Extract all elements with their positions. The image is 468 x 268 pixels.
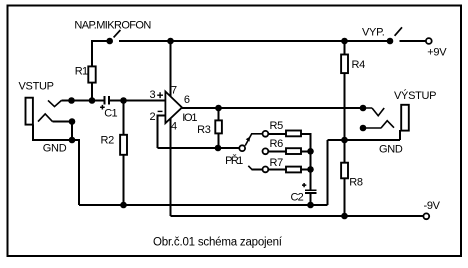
wire pin2 input <box>158 115 166 117</box>
resistor R6 <box>286 148 301 154</box>
wire R2 top stub <box>123 101 125 136</box>
label -9V <box>424 200 441 212</box>
svg-text:4: 4 <box>171 121 177 133</box>
wire virtual ground rail <box>79 204 328 206</box>
label R4 <box>352 59 366 71</box>
op-amp inverting - mark <box>158 110 163 112</box>
switch PR1 wiper arrowhead <box>246 136 251 141</box>
label pin 3 <box>150 89 156 101</box>
junction dot C1/R2 node <box>120 97 127 104</box>
label R1 <box>75 66 88 78</box>
resistor R2 <box>120 135 127 155</box>
terminal -9V <box>423 213 429 219</box>
label IO1 <box>182 112 197 124</box>
wire C2 bottom stub <box>310 193 312 205</box>
label R7 <box>270 157 284 169</box>
switch VYP. lever <box>395 27 402 36</box>
svg-text:3: 3 <box>150 89 156 101</box>
junction dot R3 top <box>215 105 222 112</box>
wire input ground run <box>32 139 79 141</box>
terminal +9V <box>426 38 432 44</box>
op-amp noninverting + mark <box>157 92 163 98</box>
junction dot C2 bottom <box>307 202 314 209</box>
svg-text:IO1: IO1 <box>182 112 197 124</box>
label pin 4 <box>171 121 177 133</box>
label GND input <box>43 142 67 154</box>
junction dot R2 bottom <box>120 202 127 209</box>
svg-text:-9V: -9V <box>424 200 441 212</box>
wire R7 right to bus <box>301 168 312 170</box>
wire R6 right to bus <box>301 150 312 152</box>
svg-text:R1: R1 <box>75 66 88 78</box>
resistor R3 <box>215 120 222 133</box>
wire pin7 supply <box>170 41 172 97</box>
label +9V <box>427 46 447 58</box>
label C1 polarity + <box>100 105 105 110</box>
label PR1 <box>225 154 243 167</box>
jack output ring spring contact <box>363 121 394 128</box>
wire ground down left <box>78 139 80 205</box>
wire feedback bottom run <box>158 147 240 149</box>
switch PR1 wiper lever <box>245 134 262 146</box>
label VYP. <box>362 27 385 39</box>
switch position contact R5 <box>263 131 269 137</box>
wire R5 left <box>268 133 286 135</box>
wire pin4 down <box>170 118 172 216</box>
switch PR1 pole contact <box>239 145 245 151</box>
svg-text:7: 7 <box>171 85 177 97</box>
resistor R8 <box>341 163 348 179</box>
svg-text:C2: C2 <box>291 191 304 203</box>
label pin 6 <box>184 94 190 106</box>
junction dot pin7 supply <box>167 38 174 45</box>
resistor R7 <box>286 167 301 173</box>
label NAP.MIKROFON <box>74 19 151 31</box>
svg-text:Obr.č.01 schéma zapojení: Obr.č.01 schéma zapojení <box>153 237 283 249</box>
wire virtual ground top run <box>328 139 401 141</box>
svg-text:2: 2 <box>150 111 156 123</box>
svg-text:R2: R2 <box>101 135 115 147</box>
svg-text:R7: R7 <box>270 157 284 169</box>
svg-text:VSTUP: VSTUP <box>19 81 54 93</box>
label C2 <box>291 191 304 203</box>
capacitor C2 plates <box>305 190 316 193</box>
junction dot output tip node <box>360 105 367 112</box>
label R5 <box>270 120 284 132</box>
label R8 <box>349 177 363 189</box>
label VYSTUP <box>394 89 436 102</box>
wire C1 to pin3 <box>110 100 166 102</box>
junction dot R3 bottom feedback node <box>215 145 222 152</box>
junction dot R7 bus <box>307 166 314 173</box>
label R3 <box>197 124 211 136</box>
svg-text:6: 6 <box>184 94 190 106</box>
wire gain bus vertical <box>310 133 312 190</box>
svg-text:NAP.MIKROFON: NAP.MIKROFON <box>74 19 151 31</box>
wire R2 bottom stub <box>123 155 125 205</box>
label C1 <box>104 108 117 120</box>
wire ring contact to ground <box>53 121 73 123</box>
op-amp IO1 triangle <box>165 92 182 124</box>
junction dot R6 bus <box>307 148 314 155</box>
svg-text:C1: C1 <box>104 108 117 120</box>
switch position contact R6 <box>263 148 269 154</box>
switch NAP.MIKROFON pole dot <box>106 38 113 45</box>
svg-text:PŘ1: PŘ1 <box>225 154 243 167</box>
label pin 7 <box>171 85 177 97</box>
resistor R5 <box>286 131 301 137</box>
wire feedback down <box>157 115 159 149</box>
wire R7 left <box>268 168 286 170</box>
wire tip contact to node <box>62 100 104 102</box>
svg-text:VÝSTUP: VÝSTUP <box>394 89 436 102</box>
svg-text:VYP.: VYP. <box>362 27 385 39</box>
junction dot R4 top <box>341 38 348 45</box>
wire R5 right to bus <box>301 133 312 135</box>
wire output jack sleeve stub <box>399 130 401 140</box>
svg-text:R6: R6 <box>270 138 284 150</box>
wire R7 contact lead <box>252 168 263 170</box>
junction dot ring node <box>69 118 76 125</box>
junction dot R1/C1 node <box>89 97 96 104</box>
wire to +9V terminal <box>400 40 426 42</box>
wire jack sleeve stub <box>32 125 34 141</box>
wire R3 top stub <box>218 108 220 121</box>
wire R3 bottom stub <box>218 133 220 148</box>
capacitor C1 plates <box>105 96 110 105</box>
wire op-amp output run <box>182 107 363 109</box>
label R2 <box>101 135 115 147</box>
switch position stub R7 <box>248 166 252 170</box>
label R6 <box>270 138 284 150</box>
junction dot R8 bottom <box>341 213 348 220</box>
junction dot tip node <box>68 97 75 104</box>
caption Obr.c.01 schema zapojeni <box>153 237 283 249</box>
svg-text:+9V: +9V <box>427 46 447 58</box>
svg-text:R5: R5 <box>270 120 284 132</box>
svg-text:R3: R3 <box>197 124 211 136</box>
wire +9V top rail left segment <box>91 40 111 42</box>
label GND output <box>379 144 403 156</box>
wire virtual ground riser <box>327 140 329 205</box>
wire -9V bottom rail <box>171 215 424 217</box>
wire R1 bottom stub <box>91 83 93 101</box>
wire R4 bottom stub <box>344 73 346 140</box>
switch VYP. pole dot <box>387 38 394 45</box>
wire R1 top stub <box>91 40 93 66</box>
label C2 polarity + <box>302 183 306 187</box>
jack ring spring contact <box>38 114 53 122</box>
switch NAP.MIKROFON lever <box>114 30 121 37</box>
resistor R4 <box>341 55 348 74</box>
jack output tip spring contact <box>363 108 384 116</box>
resistor R1 <box>88 66 95 82</box>
wire R8 top stub <box>344 140 346 163</box>
connector J1 input jack body <box>26 98 33 125</box>
switch position contact R7 <box>263 167 269 173</box>
label pin 2 <box>150 111 156 123</box>
wire R4 top stub <box>344 41 346 55</box>
junction dot output ring node <box>360 125 367 132</box>
wire ring node down <box>71 122 73 141</box>
svg-text:GND: GND <box>43 142 67 154</box>
wire R6 left <box>268 150 286 152</box>
connector J2 output jack body <box>401 105 409 131</box>
svg-text:R8: R8 <box>349 177 363 189</box>
junction dot divider node <box>341 137 348 144</box>
wire R8 bottom stub <box>344 178 346 216</box>
svg-text:R4: R4 <box>352 59 366 71</box>
svg-text:GND: GND <box>379 144 403 156</box>
wire top rail middle segment <box>119 40 390 42</box>
junction dot input GND <box>69 137 76 144</box>
jack tip spring contact <box>48 100 62 106</box>
label VSTUP <box>19 81 54 93</box>
